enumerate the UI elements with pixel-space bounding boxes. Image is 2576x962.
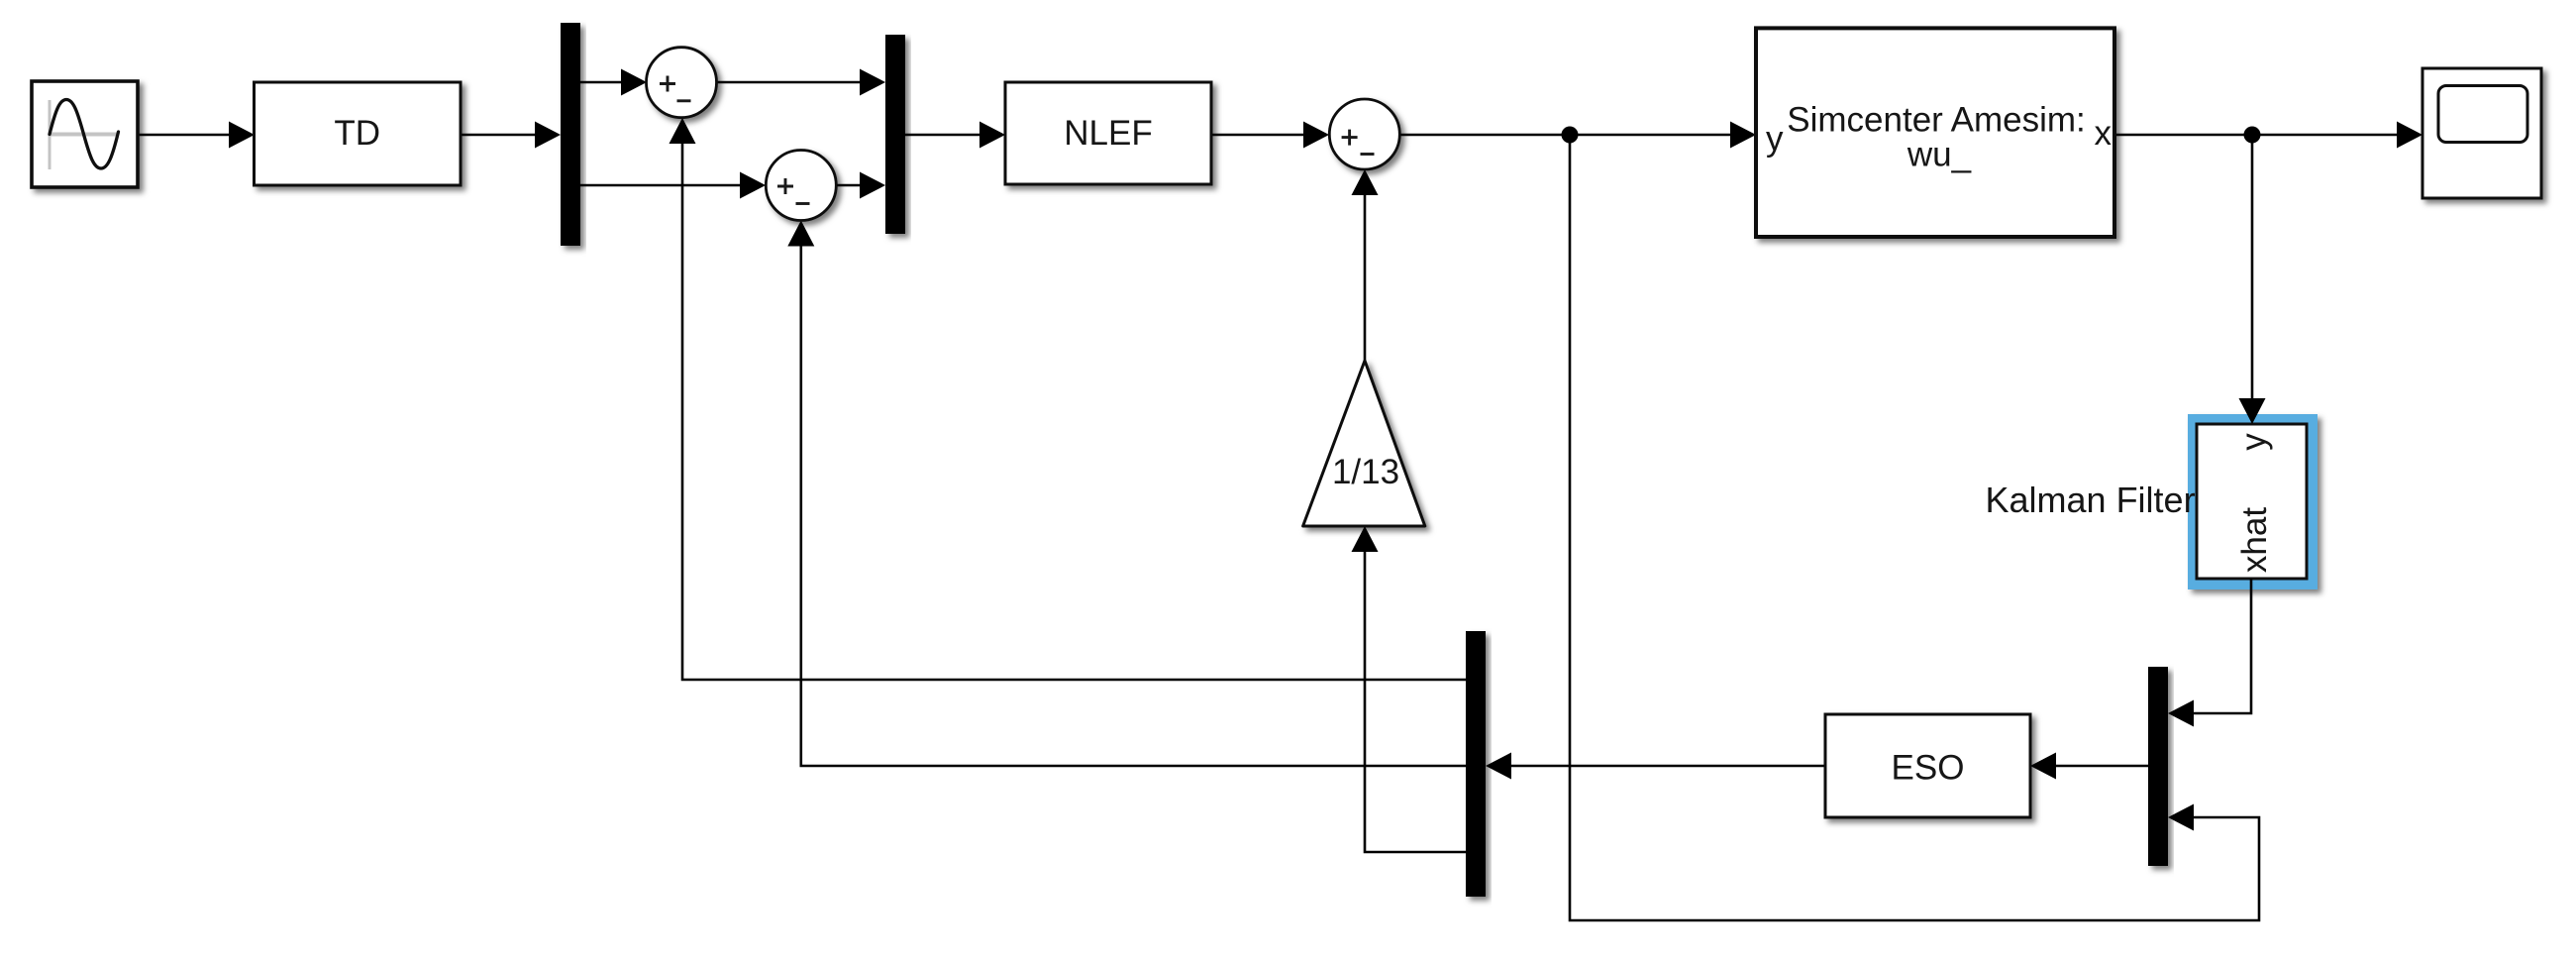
- junction dot B (x branch): [2244, 127, 2261, 144]
- wire sum3->Amesim: [1399, 122, 1756, 149]
- svg-text:1/13: 1/13: [1332, 453, 1399, 491]
- wire demux2->sum2 bottom: [787, 221, 1466, 767]
- wire demux2->gain input: [1352, 526, 1467, 852]
- svg-text:x: x: [2095, 114, 2112, 153]
- sum junction S3: [1329, 99, 1399, 169]
- block ESO: [1825, 714, 2030, 817]
- wire Kalman xhat->mux2: [2168, 579, 2251, 727]
- block NLEF: [1005, 82, 1211, 184]
- svg-text:xhat: xhat: [2235, 507, 2274, 573]
- wire mux2->ESO: [2030, 753, 2148, 780]
- junction dot A (u branch): [1562, 127, 1579, 144]
- wire demux2->sum1 bottom: [670, 118, 1467, 680]
- wire demux1->sum1: [580, 69, 647, 96]
- svg-text:Kalman Filter: Kalman Filter: [1986, 480, 2196, 520]
- svg-text:TD: TD: [334, 114, 380, 153]
- wire sum1->mux1: [717, 69, 886, 96]
- wire sum2->mux1: [836, 172, 885, 199]
- sine wave source block: [32, 81, 138, 187]
- wire mux1->NLEF: [905, 122, 1005, 149]
- demux bar 1: [561, 23, 580, 246]
- wire Amesim->scope: [2114, 122, 2422, 149]
- svg-text:wu_: wu_: [1906, 135, 1972, 173]
- wire dotA->mux2 (u feedback): [1570, 135, 2259, 920]
- demux bar 2: [1466, 631, 1486, 897]
- mux bar 1: [885, 35, 905, 234]
- scope block: [2422, 68, 2541, 198]
- mux bar 2: [2148, 667, 2168, 866]
- Kalman Filter block (selected, blue highlight): [2188, 414, 2318, 589]
- svg-text:ESO: ESO: [1892, 749, 1965, 788]
- svg-text:y: y: [2234, 433, 2273, 451]
- block Simcenter Amesim: [1756, 28, 2114, 237]
- wire sine->TD: [138, 122, 255, 149]
- svg-text:NLEF: NLEF: [1064, 114, 1152, 153]
- sum junction S1: [647, 48, 717, 118]
- svg-text:Simcenter Amesim:: Simcenter Amesim:: [1787, 100, 2085, 139]
- gain 1/13 triangle: [1303, 361, 1425, 526]
- wire TD->demux1: [461, 122, 561, 149]
- wire demux1->sum2: [580, 172, 766, 199]
- wire gain->sum3 bottom: [1352, 169, 1379, 361]
- block TD: [255, 82, 462, 185]
- wire NLEF->sum3: [1211, 122, 1329, 149]
- svg-text:y: y: [1766, 120, 1784, 159]
- wire ESO->demux2: [1486, 753, 1825, 780]
- sum junction S2: [766, 151, 836, 221]
- wire dotB->Kalman y input: [2239, 135, 2266, 424]
